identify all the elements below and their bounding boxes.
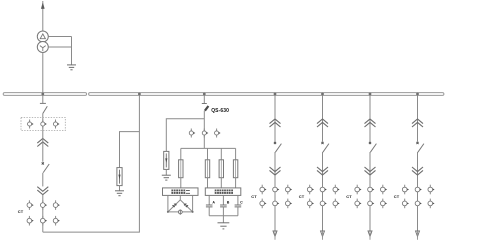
drawout contact (upper) feeder 4: [412, 119, 423, 127]
wire: capacitor common tie: [209, 207, 238, 216]
wire: fuse FU2 to box 2: [207, 178, 209, 188]
CT cluster feeder 3 row 2: [355, 199, 387, 209]
drawout contact (lower) feeder 3: [365, 167, 376, 175]
drawout contact (upper) feeder 2: [317, 119, 328, 127]
drawout contact (upper) incomer breaker: [37, 139, 48, 147]
svg-text:A: A: [212, 200, 215, 204]
PT assembly below box 1: [167, 195, 194, 213]
capacitor A: [206, 205, 213, 207]
svg-text:CT: CT: [18, 209, 24, 214]
fuse mark X1 on PT leg: [172, 204, 176, 208]
wire: contact to breaker: [42, 139, 44, 162]
wire: drop to fuse FU4: [235, 148, 237, 159]
svg-text:CT: CT: [299, 194, 305, 199]
load box 1 (feeder label): [163, 188, 199, 196]
drawout contact (upper) feeder 3: [365, 119, 376, 127]
transformer T1 secondary winding (wye): [37, 42, 48, 53]
node: feeder 2 bus junction: [321, 93, 324, 96]
drawout contact (lower) feeder 1: [270, 167, 281, 175]
busbar section 1: [3, 93, 86, 96]
drawout contact (lower) feeder 4: [412, 167, 423, 175]
CT c-phase (QS-630): [215, 129, 221, 138]
capacitor C: [235, 205, 242, 207]
CT cluster incomer row 1: [27, 200, 60, 210]
wire: fuse FU1 to box 1: [180, 178, 182, 188]
load box 2 (load switch label): [205, 188, 241, 196]
wire: incomer feeder drop from bus 1: [42, 95, 44, 103]
fuse FU4: [233, 160, 237, 178]
CT cluster feeder 4 row 1: [402, 185, 434, 195]
surge arrester F2: [164, 151, 169, 169]
CT cluster feeder 1 row 1: [260, 185, 292, 195]
wire: arrester F2 to ground: [165, 169, 167, 175]
outgoing arrow feeder 3: [368, 231, 372, 237]
feeder 4: [394, 95, 435, 239]
wire: drop to fuse FU3: [220, 148, 222, 159]
ground: arrester F1: [115, 191, 124, 196]
svg-text:CT: CT: [251, 194, 257, 199]
CT cluster feeder 1 row 2: [260, 199, 292, 209]
ground: arrester F2: [162, 175, 171, 180]
node: riser-bus junction: [138, 93, 141, 96]
capacitor bank below box 2: [209, 195, 238, 205]
circuit breaker feeder 2: [321, 142, 329, 152]
fuse FU3: [219, 160, 223, 178]
circuit breaker feeder 1: [274, 142, 282, 152]
CT cluster feeder 2 row 1: [307, 185, 339, 195]
CT cluster feeder 2 row 2: [307, 199, 339, 209]
transformer T1 primary winding (delta): [37, 31, 48, 42]
outgoing arrow feeder 2: [321, 231, 325, 237]
circuit breaker feeder 3: [369, 142, 377, 152]
CT cluster feeder 4 row 2: [402, 199, 434, 209]
wire: QS-630 to fuse tee: [203, 111, 205, 149]
wire: feeder 3 upper: [369, 95, 371, 141]
feeder 1: [251, 95, 292, 239]
disconnect switch QS1: [40, 103, 47, 113]
CT b-phase (incomer metering): [41, 120, 47, 129]
CT cluster feeder 3 row 1: [355, 185, 387, 195]
wire: through CT cluster to bottom corner: [42, 195, 44, 232]
busbar section 2: [89, 93, 444, 96]
wire: branch to arrester F1: [120, 132, 140, 168]
drawout contact (lower) feeder 2: [317, 167, 328, 175]
feeder 2: [299, 95, 340, 239]
wire: fuse FU4 to box 2: [235, 178, 237, 188]
node: QS-630 bus junction: [203, 93, 206, 96]
CT cluster incomer row 2: [27, 216, 60, 226]
wire: feeder 2 upper: [322, 95, 324, 141]
wire: tie to ground: [222, 216, 224, 223]
label text box 2 (CJK simulated): [215, 190, 233, 194]
svg-text:QS-630: QS-630: [211, 108, 229, 114]
node: feeder 3 bus junction: [369, 93, 372, 96]
CT b-phase (QS-630): [202, 129, 208, 138]
node: feeder 1 bus junction: [274, 93, 277, 96]
wire: feeder 2 lower: [322, 152, 324, 236]
wire: bottom link and riser to bus 2: [43, 95, 140, 232]
wire: drop to fuse FU2: [207, 148, 209, 159]
wire: fuse FU3 to box 2: [220, 178, 222, 188]
drawout contact (lower) incomer breaker: [37, 187, 48, 195]
svg-text:CT: CT: [394, 194, 400, 199]
wire: feeder 1 upper: [274, 95, 276, 141]
label text box 1 (CJK simulated): [171, 190, 190, 194]
ground: capacitor bank: [218, 223, 230, 229]
wire: feeder 4 upper: [417, 95, 419, 141]
wire: switch to CT box: [42, 113, 44, 138]
svg-text:C: C: [240, 200, 243, 204]
CT a-phase (QS-630): [189, 129, 195, 138]
wire: fuse tee header: [181, 147, 236, 149]
wire: breaker to lower contact: [42, 173, 44, 187]
fuse FU1: [179, 160, 183, 178]
wire: feeder 3 lower: [369, 152, 371, 236]
node: feeder 4 bus junction: [416, 93, 419, 96]
wire: arrester F1 to ground: [119, 186, 121, 191]
fuse mark X2 on PT leg: [184, 204, 188, 208]
CT c-phase (incomer metering): [53, 120, 59, 129]
wire: QS-630 drop from bus 2: [203, 95, 205, 103]
wire: drop to fuse FU1: [180, 148, 182, 159]
wire: branch to arrester F2: [166, 119, 204, 152]
ground: transformer neutral: [67, 65, 76, 70]
fuse FU2: [205, 160, 209, 178]
svg-text:CT: CT: [346, 194, 352, 199]
wire: feeder 4 lower: [417, 152, 419, 236]
outgoing arrow feeder 4: [416, 231, 420, 237]
svg-text:B: B: [227, 200, 230, 204]
surge arrester F1: [117, 168, 122, 186]
circuit breaker QF1 (incomer): [42, 162, 50, 172]
drawout contact (upper) feeder 1: [270, 119, 281, 127]
wire: transformer neutral taps to ground: [48, 37, 71, 65]
wire: feeder 1 lower: [274, 152, 276, 236]
capacitor B: [220, 205, 227, 207]
CT a-phase (incomer metering): [28, 120, 34, 129]
outgoing arrow feeder 1: [273, 231, 277, 237]
feeder 3: [346, 95, 387, 239]
circuit breaker feeder 4: [416, 142, 424, 152]
CT enclosure (dashed): [21, 117, 65, 130]
incoming line arrow: [41, 1, 44, 31]
wire: transformer to bus 1: [42, 53, 44, 93]
node: transformer-bus junction: [41, 93, 44, 96]
PT winding symbol: [178, 210, 182, 215]
fuse-switch QS-630: [202, 104, 209, 111]
